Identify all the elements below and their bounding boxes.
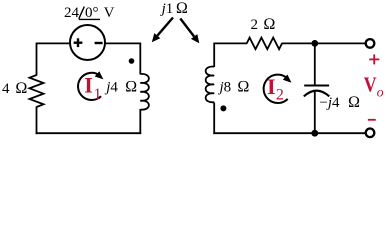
wire: capacitor branch upper <box>314 43 316 85</box>
value label 24∠0° V <box>64 5 115 21</box>
polarity dot (primary) <box>129 58 135 64</box>
junction dot bottom <box>311 130 318 137</box>
capacitor −j4Ω <box>304 86 330 97</box>
arrow to secondary coil <box>180 19 199 44</box>
wire: left loop right upper <box>139 43 141 75</box>
wire: right loop bottom <box>213 132 365 134</box>
wire: left loop left upper <box>36 43 38 76</box>
svg-text:o: o <box>377 85 384 100</box>
wire: left loop right lower <box>139 109 141 134</box>
svg-text:Ω: Ω <box>15 80 27 97</box>
svg-text:Ω: Ω <box>237 78 249 95</box>
svg-text:4: 4 <box>2 81 10 97</box>
svg-text:j1: j1 <box>160 1 174 17</box>
svg-text:I: I <box>267 74 276 99</box>
wire: right loop top left segment <box>214 42 247 44</box>
inductor j4Ω (primary coil) <box>140 74 149 110</box>
svg-text:j4: j4 <box>104 79 118 95</box>
resistor 4Ω <box>30 75 44 107</box>
svg-text:V: V <box>364 72 377 96</box>
svg-text:24: 24 <box>64 5 80 21</box>
svg-text:1: 1 <box>94 86 102 103</box>
wire: left loop bottom <box>36 132 142 134</box>
mesh current label I1 <box>84 73 101 103</box>
svg-text:2: 2 <box>251 17 259 33</box>
svg-text:0°: 0° <box>85 5 99 21</box>
polarity minus (output) <box>368 119 376 121</box>
svg-text:j8: j8 <box>218 79 232 95</box>
terminal top (open circle) <box>366 39 375 48</box>
wire: capacitor branch lower <box>314 92 316 134</box>
svg-text:2: 2 <box>276 87 284 104</box>
svg-text:I: I <box>84 73 93 98</box>
output voltage label Vo <box>364 72 384 100</box>
wire: left loop left lower <box>36 107 38 135</box>
wire: right loop left lower <box>213 103 215 135</box>
svg-text:Ω: Ω <box>176 0 188 17</box>
terminal bottom (open circle) <box>366 129 375 138</box>
svg-text:Ω: Ω <box>125 78 137 95</box>
wire: right loop top right segment <box>282 42 365 44</box>
mesh current I2 arrow <box>264 75 292 104</box>
wire: left loop top <box>37 42 141 44</box>
resistor 2Ω <box>247 38 282 50</box>
polarity dot (secondary) <box>220 105 226 111</box>
svg-text:−j4: −j4 <box>319 95 340 111</box>
mesh current I1 arrow <box>78 71 103 100</box>
arrow to primary coil <box>152 18 173 43</box>
svg-text:Ω: Ω <box>263 16 275 33</box>
mesh current label I2 <box>267 74 284 104</box>
svg-text:V: V <box>104 5 115 21</box>
inductor j8Ω (secondary coil) <box>206 67 215 103</box>
polarity plus (output) <box>369 54 379 64</box>
voltage source 24∠0° V <box>70 25 105 60</box>
wire: right loop left upper <box>213 43 215 68</box>
svg-text:Ω: Ω <box>348 94 360 111</box>
junction dot top <box>311 40 318 47</box>
